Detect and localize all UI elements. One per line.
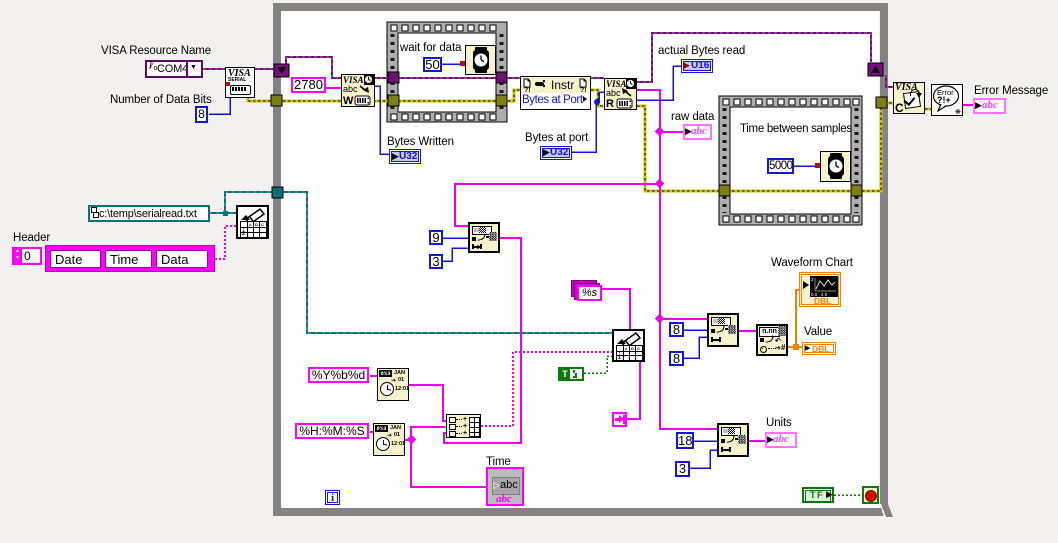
wire: boolean T to write node [584,356,862,495]
wire: path texture overlay [209,192,613,333]
control: VISA resource constant COM4 [145,60,203,78]
node: Simple Error Handler icon [931,84,963,116]
wire: boolean TF to loop condition [834,494,862,496]
wire: 3 to String Subset 3 [690,450,717,468]
wire: error cluster from VISA Configure through loop [248,90,932,191]
node: string junction subset2 branch [655,314,665,324]
wire: VISA resource VISA Read to right shift register [637,33,871,82]
wire: String Subset 2 output to n.nn [739,330,756,332]
wire: string 2780 to VISA Write [325,88,973,487]
wire: VISA resource property node to VISA Read [591,77,604,79]
node: VISA Read icon [604,78,637,110]
label: Waveform Chart [771,257,853,269]
indicator: raw data string [683,124,712,140]
node: loop condition terminal (stop) [862,486,879,504]
wire: VISA resource right shift register to VISA Close [886,75,893,87]
wire: 8 to String Subset 2 offset [684,329,707,331]
while loop interior [281,11,879,508]
wire: VISA Write bytes written to U32 [374,86,389,154]
wire: numeric blue wires [209,64,819,468]
node: Write Characters To File icon [236,205,269,239]
node: String Subset icon 1 [468,222,500,253]
svg-text:❋: ❋ [955,108,961,115]
control: Header array of strings frame [45,245,215,272]
label: Number of Data Bits [110,94,212,106]
node: red coercion dot at Wait ms 2 [815,163,820,168]
wire: format date constant 1 [370,375,377,377]
node: property node Instr / Bytes at Port [520,76,591,110]
wire: branch to String Subset 1 [455,184,660,226]
constant: end of line [612,412,627,427]
indicator: Units string [765,432,797,448]
while loop border [273,3,893,517]
label: Error Message [974,85,1048,97]
wire: 5000 to Wait ms [793,165,819,167]
node: Write File node (pencil/table) [612,329,645,362]
constant: date format %Y%b%d [308,367,369,383]
wire: VISA resource texture overlay [203,33,893,87]
constant: string 2780 [291,77,326,93]
node: string junction time indicator [407,435,417,445]
constant: 5000 [767,158,794,174]
label: wait for data [400,42,461,54]
node: blue junction at property node output [594,99,600,105]
constant: boolean TF [802,487,834,503]
indicator: Time string (local variable) [486,467,524,506]
wire: 3 to String Subset 1 [441,248,468,261]
tunnel: path on loop left border [272,187,283,198]
node: Build Array icon [446,414,481,438]
wire: path branch into loop down to write file node [225,192,613,333]
wire: 18 to String Subset 3 [694,440,717,442]
wire: 8 to String Subset 2 length [684,337,707,358]
indicator: Value DBL [802,342,836,355]
shift register right (VISA resource) [868,63,883,76]
constant: time format %H:%M:%S [295,423,369,439]
tunnel: error on sequence 1 right [496,95,507,106]
constant: 8 (offset) [669,322,684,337]
wire: Header array to Write Characters To File [215,226,236,259]
control: Header array index box [12,247,42,265]
wire: time string to Build Array [405,427,447,440]
node: Fract/Exp String To Number icon [756,324,788,356]
label: Time between samples [740,123,852,135]
constant: 9 [429,230,443,245]
indicator: Bytes at port U32 [540,146,572,160]
label: actual Bytes read [658,45,745,57]
label: Units [766,417,792,429]
wire: VISA Read return count to U16 [637,66,681,100]
node: Wait (ms) icon 2 [820,151,851,182]
svg-text:?!+: ?!+ [937,95,951,105]
node: String Subset icon 2 [707,313,739,347]
wire: end of line constant to write node [627,361,640,419]
wire: String Subset 3 output to Units [749,440,766,442]
constant: file path c:\temp\serialread.txt [88,205,210,222]
node: red coercion dot at Wait ms 1 [460,61,465,66]
indicator: Waveform Chart terminal [799,272,841,307]
svg-text:R: R [606,98,614,109]
constant: boolean T [558,367,584,381]
wire: raw data branch [660,131,683,133]
wire: %s constant to write node [600,289,630,329]
indicator: actual Bytes read U16 [681,59,713,73]
node: String Subset icon 3 [717,423,749,457]
node: orange junction [793,344,799,350]
flat sequence frame: wait for data [387,22,507,122]
node: VISA Close icon [893,82,925,114]
tunnel: error on sequence 1 left [388,95,399,106]
wire: DBL orange wires [788,290,802,347]
node: Format Date/Time String icon 1 [377,368,409,401]
svg-text:abc: abc [343,84,358,94]
wire: VISA resource VISA Write to property node [374,77,520,79]
tunnel: error on sequence 2 right [851,185,862,196]
shift register left (VISA resource) [274,64,289,77]
tunnel: purple on sequence 1 right [496,72,507,83]
svg-text:2: 2 [811,277,814,282]
wire: VISA resource COM4 to VISA Configure Serial Port [203,33,893,87]
label: Bytes at port [525,132,588,144]
node: VISA Configure Serial Port icon [225,67,255,98]
tunnel: error on sequence 2 left [719,185,730,196]
wire: VISA Read data out long vertical [637,90,717,429]
node: path wire junction [223,211,228,216]
label: Bytes Written [387,136,454,148]
wire: time string branch to Time indicator [411,440,486,487]
wire: VISA resource shift register to VISA Write (routed over 2780) [286,57,341,78]
tunnel: purple on sequence 1 left [271,72,887,198]
wire: String Subset 1 output to Build Array [444,238,521,443]
label: Value [804,326,832,338]
tunnel: error on loop left border [271,95,282,106]
indicator: Bytes Written U32 [389,149,421,164]
node: loop iteration terminal i [325,490,340,505]
wire: 50 to Wait ms [442,63,464,65]
label: raw data [671,111,714,123]
svg-text:abc: abc [606,88,621,98]
constant: 50 [423,57,442,72]
label: VISA Resource Name [101,45,211,57]
indicator: Error Message string [973,98,1006,114]
constant: 18 [676,432,694,449]
node: Wait (ms) icon 1 [465,45,496,75]
wire: error dialog to Error Message [963,104,973,106]
wire: date string to Build Array [409,385,447,421]
node: string junction subset1 branch [655,179,665,189]
node: Format Date/Time String icon 2 [373,423,405,456]
wire: data bits 8 to VISA Configure [209,98,230,114]
constant: data bits 8 [195,106,208,123]
wire: branch to String Subset 2 [660,318,707,320]
constant: 8 (length) [669,351,684,366]
constant: %s with shadow stack [571,280,602,301]
label: Time [486,456,511,468]
wire: property node to Bytes at port U32 [572,102,596,152]
constant: 3 (units) [675,461,690,477]
wire: string array Build Array output to write node [215,226,613,426]
constant: 3 [429,254,443,269]
wire: 9 to String Subset 1 [441,237,468,239]
flat sequence frame: time between samples [719,96,862,225]
wire: property node to VISA Read count [596,92,604,102]
node: string junction raw data [407,127,665,445]
svg-text:Instr: Instr [551,78,574,92]
wire: path constant to Write Characters To File [209,192,613,333]
node: VISA Write icon [341,74,375,107]
label: Header [13,232,50,244]
svg-text:W: W [343,95,354,106]
tunnel: error on loop right border [876,97,887,108]
wire: format date constant 2 [370,431,373,433]
